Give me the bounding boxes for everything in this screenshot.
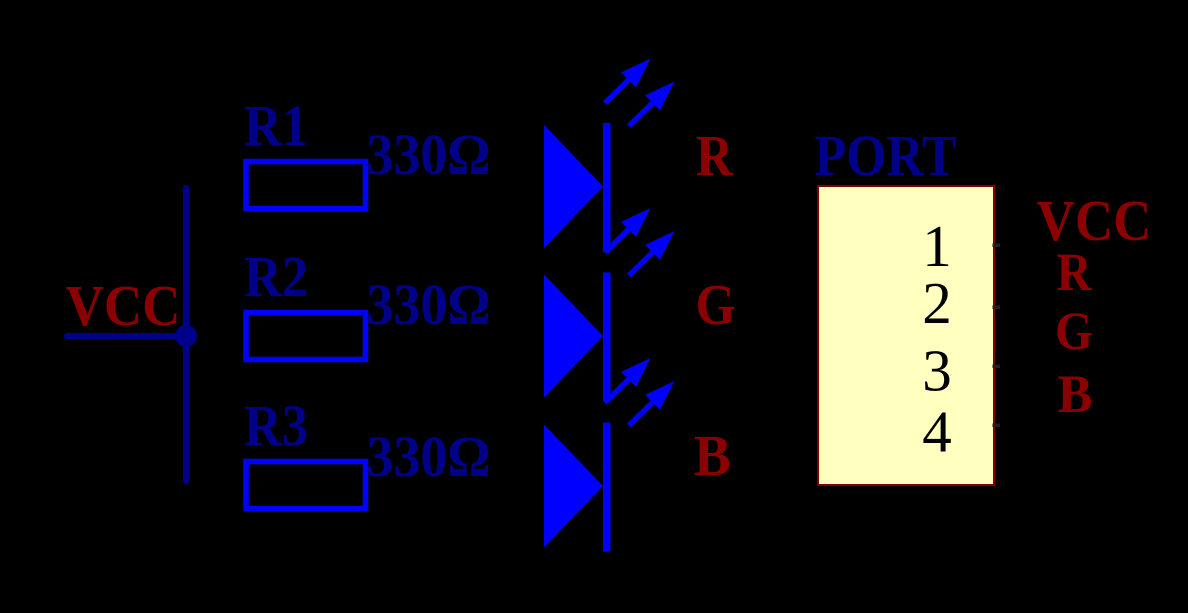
svg-text:VCC: VCC xyxy=(1037,188,1152,253)
node: VCC junction dot xyxy=(175,325,197,347)
LED D1 (red channel) xyxy=(544,51,682,252)
svg-text:B: B xyxy=(1058,364,1093,424)
svg-text:R2: R2 xyxy=(244,244,308,309)
LED D3 emission arrow 1 xyxy=(598,351,658,410)
svg-text:R: R xyxy=(696,123,734,188)
svg-text:R3: R3 xyxy=(244,393,308,458)
resistor R1 xyxy=(246,162,366,209)
LED D3 anode triangle xyxy=(544,425,603,548)
pin 1 stub xyxy=(993,244,1001,248)
connector J1 PORT body xyxy=(818,186,994,485)
pin 4 stub xyxy=(993,424,1001,428)
pin 3 stub xyxy=(993,365,1001,369)
svg-text:VCC: VCC xyxy=(66,273,181,338)
LED D3 emission arrow 2 xyxy=(622,374,682,433)
LED D1 emission arrow 1 xyxy=(598,51,658,110)
wire: VCC horizontal feed xyxy=(67,333,186,339)
svg-text:330Ω: 330Ω xyxy=(367,122,491,187)
LED D2 emission arrow 1 xyxy=(598,201,658,260)
resistor R3 xyxy=(246,462,366,509)
resistor R2 xyxy=(246,313,366,360)
svg-text:G: G xyxy=(1055,301,1093,361)
LED D3 (blue channel) xyxy=(544,351,682,552)
svg-text:2: 2 xyxy=(922,270,952,336)
LED D2 cathode bar xyxy=(603,273,611,402)
svg-text:3: 3 xyxy=(922,338,952,404)
pin 2 stub xyxy=(993,306,1001,310)
LED D1 emission arrow 2 xyxy=(622,74,682,133)
svg-text:4: 4 xyxy=(922,399,952,465)
svg-text:330Ω: 330Ω xyxy=(367,424,491,489)
wire: VCC vertical rail xyxy=(183,188,189,481)
LED D2 anode triangle xyxy=(544,275,603,398)
svg-text:G: G xyxy=(696,272,736,337)
LED D2 (green channel) xyxy=(544,201,682,402)
svg-text:R1: R1 xyxy=(244,93,308,158)
LED D1 anode triangle xyxy=(544,125,603,248)
svg-text:330Ω: 330Ω xyxy=(367,272,491,337)
svg-text:R: R xyxy=(1057,242,1093,302)
svg-text:B: B xyxy=(694,423,731,488)
LED D3 cathode bar xyxy=(603,423,611,552)
LED D2 emission arrow 2 xyxy=(622,224,682,283)
LED D1 cathode bar xyxy=(603,123,611,252)
svg-text:PORT: PORT xyxy=(815,123,957,188)
